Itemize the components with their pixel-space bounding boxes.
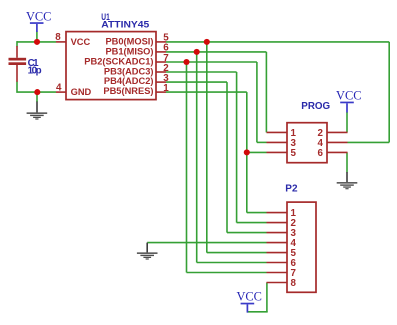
U1 pin 7 stub bbox=[156, 61, 166, 63]
P2 pin 8 stub bbox=[267, 282, 288, 284]
connector P2 box bbox=[287, 202, 316, 292]
U1 pin 5 stub bbox=[156, 41, 166, 43]
wire P2 pin3 link bbox=[227, 232, 267, 234]
wire P2 pin2 link bbox=[237, 222, 267, 224]
svg-text:VCC: VCC bbox=[336, 89, 361, 103]
PROG pin 2 stub bbox=[327, 131, 348, 133]
wire PB5 drop to P2 pin1 bbox=[246, 92, 248, 213]
U1 pin 1 stub bbox=[156, 91, 166, 93]
ground G2 bbox=[337, 172, 358, 189]
wire PB1 drop to PROG pin1 bbox=[265, 52, 267, 132]
wire P2 pin6 link bbox=[197, 262, 267, 264]
wire C1 bottom lead to node B bbox=[17, 82, 56, 93]
connector PROG box bbox=[287, 123, 327, 163]
node B junction bbox=[34, 89, 40, 95]
PROG pin 1 stub bbox=[267, 131, 288, 133]
P2 pin 3 stub bbox=[267, 232, 288, 234]
wire PB4 row bbox=[166, 81, 227, 83]
wire P2 pin8 vertical bbox=[266, 283, 268, 312]
wire C1 top corner bbox=[16, 41, 18, 46]
ground G1 bbox=[27, 102, 48, 120]
wire right edge to PROG pin4 bbox=[348, 141, 390, 143]
node MOSI junction bbox=[204, 39, 210, 45]
wire MOSI drop to P2 pin5 bbox=[206, 42, 208, 253]
wire top row node A to C1 branch bbox=[17, 41, 56, 43]
svg-text:PB4(ADC2): PB4(ADC2) bbox=[104, 76, 154, 86]
PROG pin 4 stub bbox=[327, 141, 348, 143]
wire PB2 row bbox=[166, 61, 257, 63]
wire P2 pin1 link bbox=[247, 212, 267, 214]
PROG pin 5 stub bbox=[267, 151, 288, 153]
svg-text:5: 5 bbox=[291, 148, 297, 159]
wire node B to ground G1 bbox=[36, 92, 38, 102]
wire PB3 row bbox=[166, 71, 237, 73]
svg-text:P2: P2 bbox=[285, 183, 298, 194]
P2 pin 1 stub bbox=[267, 212, 288, 214]
wire PROG pin2 riser to VCC2 bbox=[346, 112, 348, 132]
node MISO junction bbox=[194, 49, 200, 55]
node NRES junction bbox=[244, 149, 250, 155]
svg-text:PB5(NRES): PB5(NRES) bbox=[103, 86, 153, 96]
power VCC3 bbox=[236, 290, 261, 313]
svg-text:PB3(ADC3): PB3(ADC3) bbox=[104, 66, 154, 76]
node SCK junction bbox=[183, 59, 189, 65]
svg-text:1: 1 bbox=[163, 83, 169, 94]
svg-text:4: 4 bbox=[56, 82, 62, 93]
svg-text:8: 8 bbox=[55, 32, 61, 43]
svg-text:10p: 10p bbox=[28, 66, 42, 77]
svg-text:PROG: PROG bbox=[301, 101, 330, 112]
power VCC2 bbox=[336, 89, 361, 113]
U1 pin 2 stub bbox=[156, 71, 166, 73]
wire PB2 drop to PROG pin3 bbox=[256, 62, 258, 142]
P2 pin 5 stub bbox=[267, 252, 288, 254]
svg-text:6: 6 bbox=[318, 148, 324, 159]
wire MISO drop to P2 pin6 bbox=[196, 52, 198, 263]
PROG pin 3 stub bbox=[267, 141, 288, 143]
P2 pin 7 stub bbox=[267, 272, 288, 274]
wire PROG pin5 branch bbox=[247, 151, 267, 153]
svg-text:GND: GND bbox=[71, 87, 92, 97]
svg-text:ATTINY45: ATTINY45 bbox=[101, 19, 149, 29]
node A junction bbox=[34, 39, 40, 45]
wire right edge vertical bbox=[388, 42, 390, 142]
svg-text:8: 8 bbox=[291, 278, 297, 289]
U1 pin 4 GND stub bbox=[56, 91, 66, 93]
svg-text:VCC: VCC bbox=[236, 290, 261, 304]
wire PB3 drop to P2 pin2 bbox=[236, 72, 238, 223]
wire P2 pin8 to VCC3 bbox=[247, 311, 267, 313]
svg-text:PB2(SCKADC1): PB2(SCKADC1) bbox=[84, 56, 153, 66]
wire PB4 drop to P2 pin3 bbox=[226, 82, 228, 233]
U1 pin 6 stub bbox=[156, 51, 166, 53]
P2 pin 4 stub bbox=[267, 242, 288, 244]
op-amp U1 ATTINY45 box bbox=[66, 32, 156, 100]
U1 pin 3 stub bbox=[156, 81, 166, 83]
wire PROG pin6 drop to ground G2 bbox=[346, 152, 348, 172]
U1 pin 8 VCC stub bbox=[56, 41, 66, 43]
wire SCK drop to P2 pin7 bbox=[186, 62, 188, 273]
wire P2 pin5 link bbox=[207, 252, 267, 254]
PROG pin 6 stub bbox=[327, 151, 348, 153]
wire ground G3 to P2 pin4 bbox=[147, 242, 266, 244]
P2 pin 2 stub bbox=[267, 222, 288, 224]
wire P2 pin7 link bbox=[187, 272, 267, 274]
wire PB1 row bbox=[166, 51, 266, 53]
P2 pin 6 stub bbox=[267, 262, 288, 264]
power VCC1 bbox=[26, 10, 51, 33]
ground G3 bbox=[137, 243, 158, 260]
svg-text:VCC: VCC bbox=[26, 10, 51, 24]
wire VCC1 stem to node A bbox=[36, 32, 38, 43]
wire PROG pin3 link bbox=[257, 141, 267, 143]
svg-text:PB0(MOSI): PB0(MOSI) bbox=[105, 37, 153, 47]
svg-text:PB1(MISO): PB1(MISO) bbox=[105, 47, 153, 57]
wire PB5 row bbox=[166, 91, 247, 93]
wire PB0 row to right edge bbox=[166, 41, 389, 43]
capacitor C1 bbox=[9, 46, 27, 82]
svg-text:VCC: VCC bbox=[71, 37, 91, 47]
